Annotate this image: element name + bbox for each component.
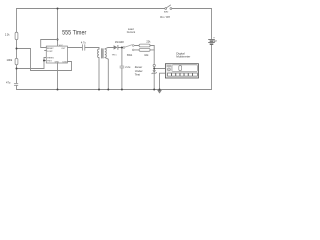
svg-text:On / Off: On / Off xyxy=(160,15,170,19)
svg-text:RESET: RESET xyxy=(47,48,54,50)
svg-text:100k: 100k xyxy=(7,58,13,62)
svg-text:47u: 47u xyxy=(6,80,11,84)
svg-text:555 Timer: 555 Timer xyxy=(62,29,86,36)
svg-text:THRES: THRES xyxy=(47,57,54,59)
svg-text:Multimeter: Multimeter xyxy=(176,55,190,59)
svg-text:DISC: DISC xyxy=(63,62,68,64)
svg-text:4.7u: 4.7u xyxy=(81,41,86,44)
svg-text:TR 1: TR 1 xyxy=(112,55,118,57)
svg-text:SW1: SW1 xyxy=(127,54,133,57)
svg-text:CONT: CONT xyxy=(47,51,53,53)
svg-text:1N4148: 1N4148 xyxy=(115,41,124,44)
svg-text:TRIG: TRIG xyxy=(47,60,52,62)
svg-text:GND: GND xyxy=(55,62,60,64)
svg-text:Current: Current xyxy=(127,31,136,34)
svg-text:9V: 9V xyxy=(214,39,217,43)
svg-text:2.2u: 2.2u xyxy=(125,65,131,69)
svg-text:VCC: VCC xyxy=(59,45,64,47)
svg-text:2.2k: 2.2k xyxy=(5,33,10,36)
svg-text:Test: Test xyxy=(135,73,140,77)
